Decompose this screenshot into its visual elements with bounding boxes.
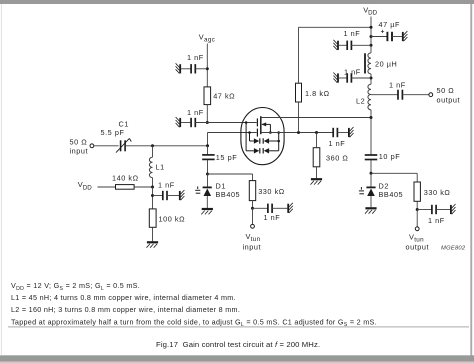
wire node to 1nF (Vtun in) bbox=[253, 207, 269, 209]
wire C1 to gate1 junction bbox=[125, 145, 207, 147]
wire 47uF bbox=[371, 36, 388, 38]
label 1 nF (VDD upper) bbox=[344, 29, 361, 38]
wire 47k to gate2 node bbox=[206, 105, 208, 123]
label D1 BB405 bbox=[216, 182, 241, 200]
wire chassis to 1nF (VDD upper) bbox=[339, 44, 348, 46]
terminal Vtun output bbox=[415, 227, 419, 231]
MOSFET gate1 electrode bbox=[256, 129, 258, 137]
capacitor 1 nF (source) bbox=[333, 128, 337, 137]
svg-text:330 kΩ: 330 kΩ bbox=[424, 188, 451, 197]
MOSFET substrate arrow bbox=[261, 122, 270, 132]
wire node to Vtun output terminal bbox=[416, 210, 418, 227]
wire 10pF to D2 node bbox=[370, 160, 372, 174]
capacitor 47 uF electrolytic bbox=[381, 28, 392, 41]
caption Fig.17 bbox=[156, 340, 320, 349]
wire rail L2 to 10pF bbox=[370, 110, 372, 155]
label D2 BB405 bbox=[379, 182, 404, 200]
svg-text:input: input bbox=[243, 243, 262, 252]
svg-text:20 µH: 20 µH bbox=[375, 59, 397, 68]
label 15 pF bbox=[216, 153, 237, 162]
wire VDD to 140k bbox=[98, 186, 116, 188]
wire source to 360 bbox=[316, 133, 318, 148]
node Vtun output bbox=[416, 208, 419, 211]
capacitor 1 nF (VDD lower) bbox=[347, 73, 351, 82]
svg-text:Tapped at approximately half a: Tapped at approximately half a turn from… bbox=[11, 317, 377, 328]
chassis ground (Vagc lower 1nF) bbox=[176, 117, 181, 127]
label 1 nF (Vtun output) bbox=[428, 216, 445, 225]
wire node to Vtun input terminal bbox=[252, 208, 254, 224]
chassis ground (47uF) bbox=[403, 31, 408, 41]
label 1 nF (source) bbox=[329, 139, 346, 148]
svg-text:L2 = 160 nH; 3 turns 0.8 mm co: L2 = 160 nH; 3 turns 0.8 mm copper wire,… bbox=[11, 305, 240, 314]
wire D2 stem bbox=[370, 173, 372, 187]
label VDD top bbox=[363, 5, 377, 16]
svg-text:140 kΩ: 140 kΩ bbox=[112, 174, 139, 183]
label 330 kOhm right bbox=[424, 188, 451, 197]
capacitor 1 nF (Vtun output) bbox=[432, 205, 436, 214]
svg-text:input: input bbox=[70, 147, 89, 156]
svg-text:L1: L1 bbox=[156, 163, 165, 172]
wire node to 1nF bbox=[153, 195, 164, 197]
rule above caption bbox=[8, 326, 469, 327]
label 47 kOhm bbox=[213, 91, 235, 100]
wire 330k to Vtun input node bbox=[252, 201, 254, 209]
wire input to C1 bbox=[94, 145, 119, 147]
svg-text:VDD = 12 V; GS = 2 mS; GL = 0.: VDD = 12 V; GS = 2 mS; GL = 0.5 mS. bbox=[11, 281, 140, 292]
label 47 uF bbox=[379, 20, 401, 29]
ground under D1 bbox=[201, 209, 213, 214]
wire gate1 lead bbox=[208, 132, 257, 134]
varicap mark D2 bbox=[359, 187, 364, 194]
node C1/L1 junction bbox=[151, 144, 154, 147]
label 140 kOhm bbox=[112, 174, 139, 183]
chassis ground (Vtun input 1nF) bbox=[288, 203, 293, 213]
wire Vagc stem bbox=[206, 44, 208, 88]
node 1nF VDD lower bbox=[370, 77, 373, 80]
svg-text:1 nF: 1 nF bbox=[389, 81, 406, 90]
label VDD left bbox=[78, 180, 92, 191]
label 1 nF (output) bbox=[389, 81, 406, 90]
label Vtun output bbox=[406, 233, 430, 252]
wire down to 1nF branch bbox=[152, 187, 154, 209]
wire L2 tap to output cap bbox=[371, 94, 398, 96]
wire 15pF to D1 node bbox=[207, 160, 209, 174]
node gate2 protection bbox=[245, 121, 248, 124]
node gate1 protection bbox=[248, 131, 251, 134]
svg-text:50 Ω: 50 Ω bbox=[70, 138, 88, 147]
chassis ground (VDD 1nF lower) bbox=[333, 73, 338, 83]
label 10 pF bbox=[379, 152, 400, 161]
chassis ground (Vagc upper 1nF) bbox=[176, 63, 181, 73]
inductor 20 uH with core bbox=[365, 53, 371, 74]
svg-text:BB405: BB405 bbox=[379, 190, 404, 199]
svg-text:1 nF: 1 nF bbox=[187, 53, 204, 62]
note line 2 L1 spec bbox=[11, 293, 236, 302]
wire 1nF to chassis (Vtun out) bbox=[436, 209, 450, 211]
transistor dual-gate MOSFET package bbox=[241, 108, 284, 165]
wire 140k to node bbox=[134, 186, 152, 188]
label 100 kOhm bbox=[159, 215, 186, 224]
node Vagc lower 1nF / gate2 bbox=[206, 121, 209, 124]
node D1 top bbox=[206, 173, 209, 176]
label Vtun input bbox=[243, 232, 262, 252]
node VDD/1.8k wire bbox=[370, 26, 373, 29]
capacitor 1 nF (output) bbox=[398, 90, 402, 100]
frame top grey band bbox=[0, 0, 474, 4]
capacitor 15 pF bbox=[202, 155, 215, 160]
capacitor C1 5.5 pF trimmer bbox=[116, 138, 131, 152]
ground under 360 bbox=[311, 179, 323, 184]
wire 330k to Vtun output node bbox=[416, 201, 418, 209]
node substrate-source bbox=[269, 131, 272, 134]
label 1 nF (Vagc upper) bbox=[187, 53, 204, 62]
capacitor 1 nF (Vagc upper) bbox=[191, 64, 195, 73]
resistor 47 kOhm bbox=[204, 87, 211, 105]
svg-text:Fig.17 Gain control test circ: Fig.17 Gain control test circuit at f = … bbox=[156, 340, 320, 349]
inductor L2 bbox=[368, 84, 371, 109]
resistor 330 kOhm right bbox=[414, 182, 420, 201]
wire VDD top to 1.8k bbox=[299, 27, 372, 83]
label 20 uH bbox=[375, 59, 397, 68]
wire 1nF to chassis (Vtun in) bbox=[272, 207, 288, 209]
wire source bbox=[261, 132, 334, 134]
resistor 330 kOhm left bbox=[249, 181, 255, 201]
wire VDD rail upper bbox=[370, 17, 372, 53]
node 1nF branch left bbox=[151, 194, 154, 197]
varicap mark D1 bbox=[195, 186, 200, 193]
chassis ground (VDD 1nF upper) bbox=[333, 40, 338, 50]
MOSFET gate2 electrode bbox=[256, 118, 258, 126]
wire junction to 15pF bbox=[207, 146, 209, 155]
label MGE802 bbox=[441, 246, 466, 252]
wire D2 node to 330k right bbox=[371, 173, 417, 182]
node right column row1 bbox=[277, 140, 280, 143]
capacitor 1 nF (Vtun input) bbox=[268, 204, 272, 213]
capacitor 1 nF (Vagc lower) bbox=[191, 118, 195, 127]
wire output cap to terminal bbox=[402, 94, 429, 96]
svg-text:BB405: BB405 bbox=[216, 190, 241, 199]
wire node to 1nF (Vtun out) bbox=[417, 209, 432, 211]
label 330 kOhm left bbox=[258, 187, 285, 196]
wire gate2 lead bbox=[195, 122, 257, 124]
wire chassis to 1nF lower bbox=[181, 122, 191, 124]
wire rail between coils bbox=[370, 74, 372, 84]
node drain junction bbox=[370, 116, 373, 119]
chassis ground (source 1nF) bbox=[349, 127, 354, 137]
wire drain bbox=[261, 117, 371, 119]
wire protection outer left column bbox=[246, 123, 254, 151]
label L2 bbox=[356, 97, 365, 106]
MOSFET channel bar bbox=[260, 116, 262, 134]
diode D1 BB405 bbox=[203, 187, 212, 208]
terminal 50 ohm input bbox=[90, 144, 94, 148]
node 1nF VDD upper bbox=[370, 44, 373, 47]
resistor 100 kOhm bbox=[149, 209, 156, 227]
protection diode pair row1 bbox=[254, 138, 269, 143]
node right column top bbox=[277, 131, 280, 134]
svg-text:L2: L2 bbox=[356, 97, 365, 106]
svg-text:1 nF: 1 nF bbox=[187, 108, 204, 117]
label 1 nF (L1 bias) bbox=[158, 181, 175, 190]
svg-text:10 pF: 10 pF bbox=[379, 152, 400, 161]
node Vagc upper 1nF bbox=[206, 67, 209, 70]
capacitor 1 nF (VDD upper) bbox=[347, 41, 351, 50]
label 1 nF (Vtun input) bbox=[264, 213, 281, 222]
note line 3 L2 spec bbox=[11, 305, 240, 314]
svg-text:50 Ω: 50 Ω bbox=[437, 86, 455, 95]
note line 4 tap note bbox=[11, 317, 377, 328]
node Vtun input bbox=[251, 207, 254, 210]
svg-text:1 nF: 1 nF bbox=[264, 213, 281, 222]
svg-text:47 kΩ: 47 kΩ bbox=[213, 91, 235, 100]
node D2 top bbox=[370, 172, 373, 175]
ground under 100k bbox=[147, 242, 159, 247]
wire D1 stem bbox=[207, 174, 209, 187]
wire source 1nF to chassis bbox=[337, 132, 348, 134]
ground under D2 bbox=[365, 208, 377, 213]
note line 1 bias conditions bbox=[11, 281, 140, 292]
capacitor 10 pF bbox=[365, 155, 378, 160]
wire chassis to 1nF upper bbox=[181, 68, 191, 70]
wire 1nF upper to Vagc rail bbox=[195, 68, 207, 70]
node gate1 / C1 junction bbox=[206, 144, 209, 147]
resistor 360 Ohm bbox=[313, 148, 320, 167]
node 360 source junction bbox=[315, 131, 318, 134]
diode D2 BB405 bbox=[366, 187, 375, 207]
resistor 1.8 kOhm bbox=[296, 83, 302, 102]
svg-text:1 nF: 1 nF bbox=[428, 216, 445, 225]
wire 1nF to VDD rail lower bbox=[351, 77, 371, 79]
svg-text:Vtun: Vtun bbox=[246, 232, 261, 243]
svg-text:47 µF: 47 µF bbox=[379, 20, 401, 29]
protection diode pair row2 bbox=[254, 148, 269, 153]
svg-text:L1 = 45 nH; 4 turns 0.8 mm cop: L1 = 45 nH; 4 turns 0.8 mm copper wire, … bbox=[11, 293, 236, 302]
node L1 bottom bbox=[151, 186, 154, 189]
node 47uF bbox=[370, 35, 373, 38]
svg-text:1 nF: 1 nF bbox=[344, 29, 361, 38]
wire protection right column bbox=[269, 133, 279, 151]
wire protection inner left column bbox=[250, 133, 254, 142]
resistor 140 kOhm bbox=[116, 185, 135, 190]
svg-text:15 pF: 15 pF bbox=[216, 153, 237, 162]
terminal 50 ohm output bbox=[429, 93, 433, 97]
svg-text:1 nF: 1 nF bbox=[329, 139, 346, 148]
wire D1 node to 330k left bbox=[208, 174, 253, 181]
chassis ground (Vtun output 1nF) bbox=[451, 204, 456, 214]
svg-text:Vagc: Vagc bbox=[199, 33, 215, 44]
svg-text:5.5 pF: 5.5 pF bbox=[101, 128, 125, 137]
frame bottom grey band bbox=[0, 355, 474, 363]
svg-text:VDD: VDD bbox=[363, 5, 377, 16]
wire chassis to 1nF (VDD lower) bbox=[339, 77, 348, 79]
frame right grey line bbox=[470, 4, 472, 356]
svg-text:output: output bbox=[437, 96, 461, 105]
svg-text:MGE802: MGE802 bbox=[441, 246, 466, 252]
wire 360 to ground bbox=[316, 167, 318, 178]
label 50 ohm input bbox=[70, 138, 89, 156]
svg-text:output: output bbox=[406, 243, 430, 252]
label 1 nF (VDD lower) bbox=[344, 67, 361, 76]
svg-text:1.8 kΩ: 1.8 kΩ bbox=[305, 89, 330, 98]
wire 1.8k to source bbox=[298, 102, 300, 133]
svg-text:1 nF: 1 nF bbox=[344, 67, 361, 76]
label 1.8 kOhm bbox=[305, 89, 330, 98]
wire gate1 corner down bbox=[207, 133, 209, 146]
svg-text:+: + bbox=[381, 28, 385, 35]
capacitor 1 nF (L1 bias) bbox=[163, 191, 167, 200]
label Vagc bbox=[199, 33, 215, 44]
terminal Vtun input bbox=[251, 224, 255, 228]
svg-text:360 Ω: 360 Ω bbox=[326, 153, 348, 162]
svg-text:VDD: VDD bbox=[78, 180, 92, 191]
label 1 nF (Vagc lower) bbox=[187, 108, 204, 117]
svg-text:100 kΩ: 100 kΩ bbox=[159, 215, 186, 224]
svg-text:330 kΩ: 330 kΩ bbox=[258, 187, 285, 196]
chassis ground (L1 bias 1nF) bbox=[180, 190, 185, 200]
inductor L1 bbox=[149, 146, 152, 187]
label L1 bbox=[156, 163, 165, 172]
frame left light line bbox=[1, 4, 2, 356]
node 1.8k source junction bbox=[297, 131, 300, 134]
wire 47uF to chassis bbox=[392, 36, 402, 38]
label C1 bbox=[101, 120, 129, 138]
wire 1nF to VDD rail upper bbox=[351, 44, 371, 46]
label 50 ohm output bbox=[437, 86, 461, 104]
wire 1nF to chassis bbox=[167, 195, 179, 197]
wire 100k to ground bbox=[152, 227, 154, 241]
label 360 Ohm bbox=[326, 153, 348, 162]
svg-text:1 nF: 1 nF bbox=[158, 181, 175, 190]
